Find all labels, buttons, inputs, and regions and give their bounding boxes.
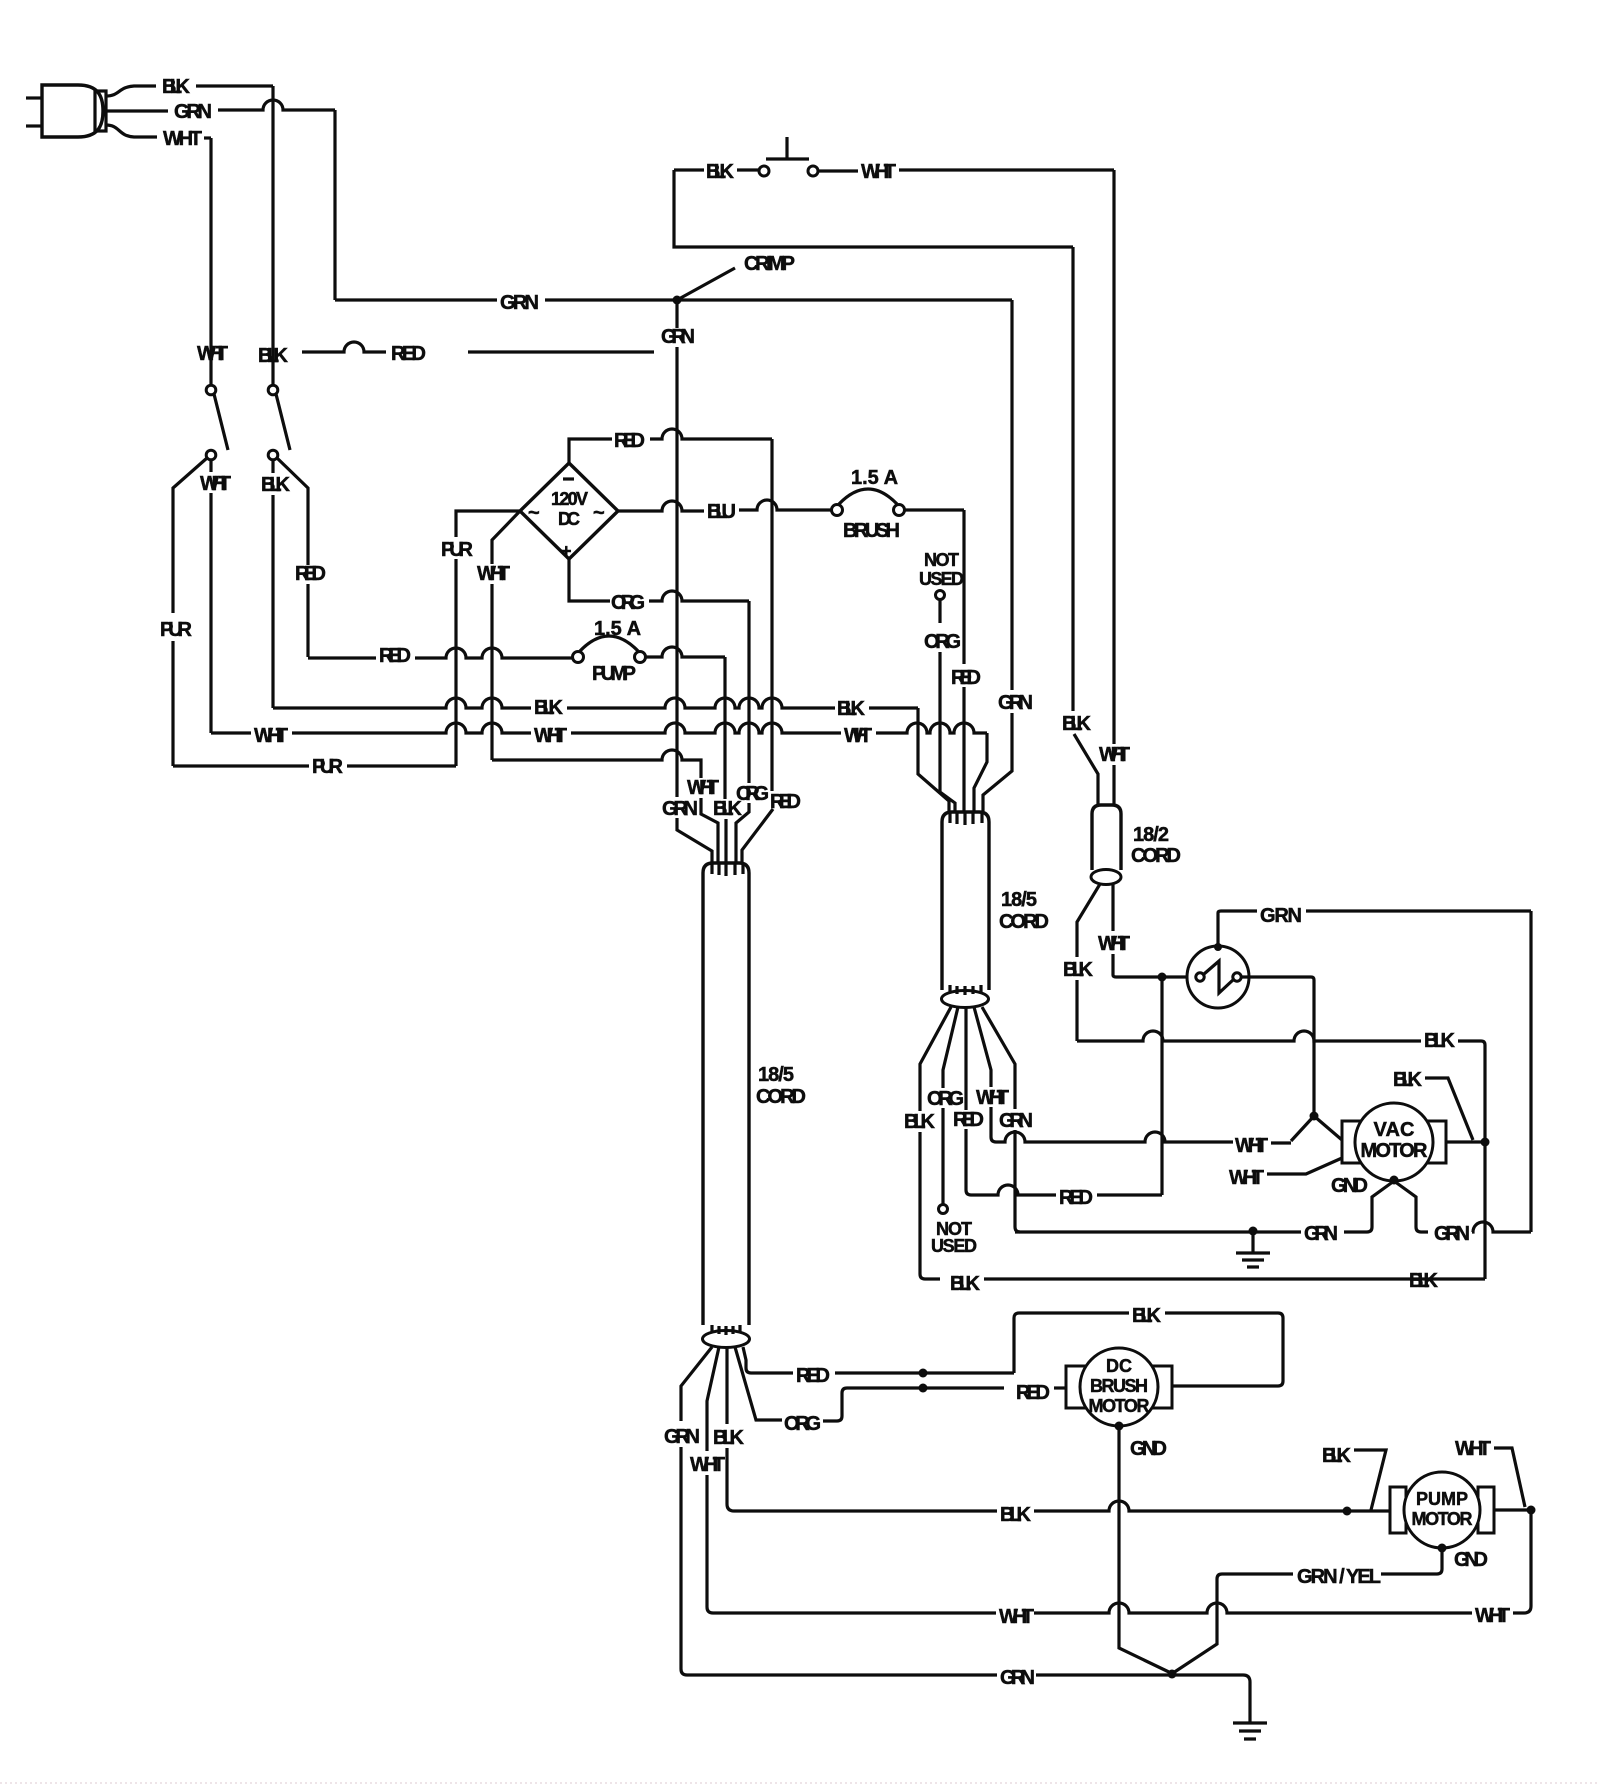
svg-text:CORD: CORD [1131,845,1181,867]
wire ORG from left cord [735,1347,1066,1435]
svg-text:WHT: WHT [976,1087,1009,1109]
svg-text:GRN: GRN [1304,1223,1338,1245]
wire WHT from push button [819,161,1114,183]
svg-text:GND: GND [1130,1438,1167,1460]
wire BLU from bridge AC right [618,500,831,523]
push button PB1 actuator [766,137,809,159]
wire junction down to RED line [1160,977,1163,1195]
svg-text:DC: DC [558,509,580,529]
svg-text:WHT: WHT [844,725,872,747]
wire GRN right vertical [1529,911,1532,1232]
wire WHT below mid cord [974,1007,1233,1142]
switch S2 lower contact [268,450,278,460]
ground G1 [1236,1232,1270,1267]
svg-text:GRN: GRN [998,692,1033,714]
wire RED jumper with crimp bump [302,342,654,365]
wire RED to pump fuse [308,645,572,667]
svg-text:GRN: GRN [664,1426,700,1448]
push button right contact [808,166,818,176]
switch S1 WHT upper contact [206,385,216,395]
svg-text:BLK: BLK [261,474,291,496]
svg-text:BLK: BLK [258,345,289,367]
wire vac right terminal [1446,1140,1485,1143]
wire WHT bus [211,723,987,747]
svg-text:120V: 120V [551,489,588,509]
svg-text:BLK: BLK [1063,959,1094,981]
svg-text:WHT: WHT [687,777,719,799]
wire ORG vertical to cord [736,601,769,863]
NOT USED terminal lower [931,1205,977,1257]
pump motor M3 [1390,1472,1494,1548]
svg-text:PUR: PUR [441,539,474,561]
wire BLK from 18/2 to vac motor [1077,1030,1485,1279]
node WHT vac junction [1310,1112,1319,1121]
svg-text:RED: RED [953,1109,984,1131]
svg-text:GND: GND [1454,1549,1488,1571]
svg-text:USED: USED [919,569,964,589]
wire GRN from thermal top [1218,905,1531,946]
svg-text:BRUSH: BRUSH [1090,1376,1148,1396]
svg-text:BLK: BLK [1424,1030,1456,1052]
DC brush motor M2 [1066,1348,1172,1426]
wire BLK from left cord [713,1347,1390,1526]
svg-text:WHT: WHT [861,161,896,183]
wire from thermal right contact [1241,977,1314,1116]
svg-text:18/5: 18/5 [1001,889,1037,911]
svg-text:RED: RED [379,645,411,667]
wire GRN below mid cord [982,1007,1033,1232]
wire ORG from bridge plus [569,559,749,614]
svg-text:1.5 A: 1.5 A [594,618,641,640]
label 18/2 CORD [1131,824,1181,867]
wire WHT diagonal from bridge [477,511,520,760]
label BLK vac brush lead [1393,1069,1473,1140]
label 18/5 CORD mid [999,889,1049,933]
wire GRN from plug [106,100,335,123]
svg-text:BLK: BLK [904,1111,936,1133]
wire PUR horizontal [173,756,456,778]
svg-text:BLK: BLK [1322,1445,1352,1467]
svg-text:+: + [561,541,572,561]
svg-text:RED: RED [295,563,326,585]
svg-text:~: ~ [528,502,540,524]
svg-text:BLK: BLK [837,698,866,720]
switch S2 blade [276,394,290,450]
svg-text:GRN: GRN [661,326,695,348]
node crimp RED lower [919,1384,928,1393]
svg-text:BLK: BLK [534,697,564,719]
svg-text:PUMP: PUMP [592,663,636,685]
svg-text:WHT: WHT [1475,1605,1510,1627]
wire GND pump to GRN/YEL [1173,1544,1447,1674]
wire BLK below 18/2 cord [1063,884,1100,1041]
wire WHT bottom line [713,1603,1510,1628]
cord W1 18/5 body [703,863,750,1348]
wire from fuse F1 to BLK cord feed [646,647,725,657]
svg-text:WHT: WHT [197,343,228,365]
svg-text:BLK: BLK [950,1273,981,1295]
label WHT vac lead upper [1235,1116,1314,1157]
switch S1 blade [214,394,228,450]
node pump left terminal [1343,1507,1352,1516]
wire RED vertical to cord [742,439,801,863]
svg-text:~: ~ [593,502,605,524]
svg-text:GRN: GRN [999,1110,1033,1132]
wire WHT into mid cord [974,733,987,812]
wire PUR branch from S1 [160,458,207,766]
svg-text:WHT: WHT [1229,1167,1264,1189]
svg-text:WHT: WHT [163,128,202,150]
svg-text:BLK: BLK [1062,713,1092,735]
svg-text:RED: RED [770,791,801,813]
wire GRN horizontal to crimp node [335,292,1012,314]
wire WHT below 18/2 cord [1098,884,1192,977]
svg-text:PUMP: PUMP [1416,1489,1468,1509]
svg-text:WHT: WHT [477,563,510,585]
svg-text:BLK: BLK [1393,1069,1423,1091]
svg-text:GRN: GRN [174,101,212,123]
wire ORG below mid cord [927,1007,964,1204]
node pump right terminal [1527,1506,1536,1515]
label WHT vac lead lower [1229,1158,1342,1189]
wire BLK from plug [106,76,273,98]
svg-text:PUR: PUR [312,756,344,778]
svg-text:RED: RED [796,1365,830,1387]
NOT USED terminal upper [919,550,964,600]
svg-text:BLK: BLK [162,76,191,98]
svg-text:ORG: ORG [611,592,645,614]
wire WHT from left cord [690,1347,725,1613]
wire GND from DC motor [1115,1422,1172,1674]
wire WHT vertical to 18/2 cord [1099,170,1130,806]
wire RED from left cord [743,1347,1014,1387]
svg-text:1.5 A: 1.5 A [851,467,898,489]
wire to vac motor brush [1314,1116,1342,1140]
svg-text:ORG: ORG [927,1088,964,1110]
svg-text:WHT: WHT [1098,933,1130,955]
wire RED branch from S2 [277,458,326,657]
wire GRN from left cord [664,1347,712,1675]
svg-text:ORG: ORG [784,1413,821,1435]
wire GRN vertical [333,110,336,300]
svg-text:BLU: BLU [707,501,736,523]
wire RED vertical to mid cord [951,510,981,812]
label 18/5 CORD left [756,1064,806,1108]
svg-text:BLK: BLK [713,798,743,820]
AC plug P1 [42,85,106,137]
wire RED below mid cord [953,1007,1162,1209]
wire GRN to vac left [1015,1223,1338,1245]
svg-text:BLK: BLK [706,161,735,183]
svg-text:BLK: BLK [1132,1305,1162,1327]
svg-text:CORD: CORD [999,911,1049,933]
wire BLK to push button [674,161,758,183]
label WHT pump lead [1455,1438,1525,1507]
bridge rectifier BR1 [520,463,618,561]
svg-text:18/2: 18/2 [1133,824,1169,846]
svg-text:WHT: WHT [1235,1135,1268,1157]
wire GRN vertical below crimp [661,300,695,797]
plug prong lower [26,124,42,127]
wire BLK into mid cord [918,708,949,812]
node WHT thermal junction [1158,973,1167,982]
svg-text:GRN: GRN [662,798,698,820]
wire GRN vac right to vertical [1434,1222,1531,1245]
svg-text:WHT: WHT [1455,1438,1491,1460]
wire WHT from plug [106,125,211,150]
wire from fuse F2 to RED vertical [905,508,964,511]
wire BLK vertical to switch [271,86,274,384]
wire RED from bridge minus [569,429,772,463]
wire BLK y1279 label right [1409,1270,1439,1292]
svg-text:WHT: WHT [999,1606,1034,1628]
svg-text:RED: RED [951,667,981,689]
wire BLK below S2 [261,459,291,708]
svg-text:BLK: BLK [713,1427,745,1449]
svg-text:GRN: GRN [1260,905,1302,927]
label BLK pump lead [1322,1445,1386,1510]
node vac right terminal [1481,1138,1490,1147]
wire BLK to DC brush motor [1014,1305,1283,1386]
svg-text:GRN: GRN [500,292,539,314]
svg-text:WHT: WHT [254,725,288,747]
vac motor M1 [1342,1103,1446,1181]
svg-text:ORG: ORG [924,631,961,653]
svg-text:VAC: VAC [1374,1119,1415,1141]
svg-text:WHT: WHT [690,1454,725,1476]
svg-text:GND: GND [1331,1175,1368,1197]
wire BLK vertical to cord [713,657,743,863]
svg-text:RED: RED [1016,1382,1050,1404]
wire BLK bus [273,697,918,720]
svg-text:DC: DC [1106,1356,1132,1376]
node crimp junction [673,296,682,305]
svg-text:RED: RED [1059,1187,1093,1209]
svg-text:MOTOR: MOTOR [1412,1509,1473,1529]
wire GRN into left cord [662,798,712,863]
cord W3 18/2 body [1091,805,1121,885]
svg-text:BLK: BLK [1000,1504,1032,1526]
wire BLK vertical to 18/2 cord [1062,247,1098,806]
wire BLK switch loop [674,170,1073,247]
wire pump right terminal [1494,1508,1531,1511]
wire WHT to cord [492,750,719,863]
svg-text:BRUSH: BRUSH [843,520,900,542]
wire PUR from bridge AC left [441,511,520,766]
switch S1 lower contact [206,450,216,460]
plug prong upper [26,96,42,99]
switch S2 BLK upper contact [268,385,278,395]
svg-text:RED: RED [614,430,645,452]
wire vac motor bottom leads [1344,1176,1428,1233]
svg-text:18/5: 18/5 [758,1064,794,1086]
svg-text:MOTOR: MOTOR [1361,1140,1429,1162]
svg-text:CORD: CORD [756,1086,806,1108]
wire WHT below S1 [200,459,231,733]
push button left contact [759,166,769,176]
thermal protector TP1 [1187,943,1249,1008]
svg-text:GRN: GRN [1434,1223,1470,1245]
ground G2 [1233,1723,1267,1739]
cord W2 18/5 body [942,812,990,1008]
wire WHT vertical to switch [209,138,212,384]
faint scan edge [0,1782,1600,1784]
svg-text:MOTOR: MOTOR [1089,1396,1150,1416]
node crimp RED upper [919,1369,928,1378]
fuse F2 BRUSH 1.5A [832,467,905,542]
svg-text:GRN: GRN [1000,1667,1035,1689]
node bottom ground junction [1168,1670,1177,1679]
wire ORG from NOT USED to mid cord [924,600,961,812]
node ground junction [1249,1227,1258,1236]
svg-text:WHT: WHT [534,725,567,747]
wire GRN bottom line [687,1667,1250,1722]
crimp leader line [677,268,735,300]
wire GRN vertical to mid cord [983,300,1033,812]
svg-text:BLK: BLK [1409,1270,1439,1292]
wire BLK below mid cord [904,1007,1485,1295]
svg-text:USED: USED [931,1236,977,1256]
svg-text:WHT: WHT [1099,744,1130,766]
svg-text:RED: RED [391,343,426,365]
svg-text:WHT: WHT [200,473,231,495]
fuse F1 PUMP 1.5A [573,618,646,685]
svg-text:CRIMP: CRIMP [744,253,795,275]
wire WHT return right [1513,1510,1531,1613]
svg-text:GRN / YEL: GRN / YEL [1297,1566,1381,1588]
svg-text:NOT: NOT [924,550,959,570]
svg-text:PUR: PUR [160,619,193,641]
